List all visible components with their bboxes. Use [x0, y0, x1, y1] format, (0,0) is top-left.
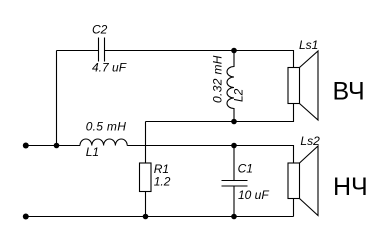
wire riser left: [56, 51, 58, 146]
wire Ls2 bottom lead: [293, 199, 295, 217]
svg-text:Ls1: Ls1: [299, 38, 318, 52]
speaker Ls2: [288, 146, 318, 216]
capacitor C2: [99, 38, 105, 62]
svg-text:L2: L2: [231, 88, 245, 102]
svg-text:ВЧ: ВЧ: [333, 78, 365, 106]
junction bottom at C1: [231, 214, 237, 220]
capacitor C1: [222, 146, 248, 217]
junction HF return at L2: [231, 119, 237, 125]
junction mid at C1: [231, 143, 237, 149]
svg-text:1.2: 1.2: [154, 175, 171, 189]
svg-text:C1: C1: [238, 162, 253, 176]
svg-text:Ls2: Ls2: [300, 134, 320, 148]
wire HF speaker return: [146, 104, 294, 122]
wire top right segment to Ls1: [105, 51, 294, 68]
inductor L2: [227, 51, 234, 122]
resistor R1: [140, 163, 152, 192]
svg-text:C2: C2: [92, 23, 108, 37]
svg-text:10 uF: 10 uF: [238, 188, 269, 202]
svg-text:4.7 uF: 4.7 uF: [92, 61, 127, 75]
junction bottom at R1: [143, 214, 149, 220]
svg-text:НЧ: НЧ: [333, 173, 368, 201]
wire R1 bottom lead: [145, 192, 147, 217]
input terminal minus: [23, 214, 29, 220]
junction top L2: [231, 48, 237, 54]
speaker Ls1: [288, 51, 318, 120]
svg-text:L1: L1: [86, 145, 99, 159]
wire mid from L1 to Ls2: [127, 146, 293, 164]
junction riser: [54, 143, 60, 149]
wire input plus to junction: [26, 145, 56, 147]
wire bottom net: [26, 216, 294, 218]
svg-text:0.5 mH: 0.5 mH: [86, 120, 127, 134]
inductor L1: [80, 139, 127, 146]
wire R1 riser through cross: [145, 122, 147, 164]
wire top left segment: [57, 50, 99, 52]
svg-text:0.32 mH: 0.32 mH: [210, 55, 224, 103]
input terminal plus: [23, 143, 29, 149]
wire L1 left lead: [57, 145, 81, 147]
